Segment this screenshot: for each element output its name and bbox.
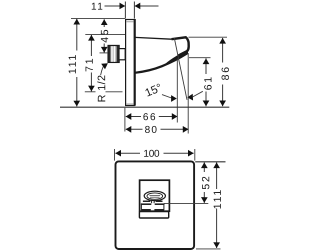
ext line 45 bottom: [100, 52, 109, 54]
svg-text:R 1/2: R 1/2: [96, 75, 108, 103]
spout head outline: [172, 37, 189, 56]
escutcheon square (front): [116, 161, 195, 249]
arrow 100 right: [188, 150, 194, 157]
dim line 61: [205, 58, 207, 106]
grate line 1: [150, 194, 161, 196]
arrow 86 top: [219, 38, 226, 44]
connector left thick bar: [108, 46, 110, 62]
side connector right: [163, 203, 165, 209]
dim line 71: [90, 35, 92, 92]
arrow 80 right: [183, 126, 189, 133]
svg-text:100: 100: [143, 149, 160, 160]
ext line 71 top: [85, 34, 125, 36]
ext line 71 bottom: [85, 91, 96, 93]
svg-text:11: 11: [91, 2, 104, 13]
grate line 2: [150, 196, 160, 198]
arrow 11 right (points left): [135, 3, 141, 10]
side connector left: [140, 203, 142, 209]
ext line 100 right: [194, 149, 196, 161]
stem left: [150, 201, 152, 204]
dim line 86: [222, 38, 224, 106]
dim line 52: [203, 162, 205, 203]
lower band left: [141, 209, 151, 211]
spout tip dark wedge: [166, 51, 188, 65]
leader R 1/2: [101, 67, 104, 76]
arrow 111b bottom: [213, 242, 220, 248]
leader to 52: [164, 202, 208, 204]
arrow 111 bottom: [73, 101, 80, 107]
svg-text:111: 111: [67, 53, 79, 74]
svg-text:111: 111: [212, 188, 224, 209]
svg-text:52: 52: [200, 174, 212, 189]
connector stub: [119, 49, 125, 60]
arrow R 1/2 (points up-right): [101, 63, 108, 69]
svg-text:86: 86: [220, 65, 232, 80]
lower band right: [154, 209, 164, 211]
plate inner line top: [126, 21, 133, 23]
svg-text:61: 61: [202, 75, 214, 90]
arrow 52 top: [201, 162, 208, 168]
arrow 15deg left (points right): [171, 95, 177, 102]
arrow 100 left: [115, 150, 121, 157]
15 deg slant line: [174, 38, 187, 100]
arrow 45 top: [101, 19, 108, 25]
escutcheon plate (side): [126, 20, 135, 106]
arrow 11 left (points right): [119, 3, 125, 10]
threaded connector body: [108, 46, 119, 63]
outlet outer ellipse: [144, 191, 165, 200]
dim line 45: [103, 19, 105, 27]
connector right dark bar: [117, 46, 119, 62]
dim line 66: [126, 116, 178, 118]
ext line 111b bottom: [196, 248, 221, 250]
ext line 66/80 left: [124, 108, 126, 132]
outlet inner ellipse: [147, 193, 163, 199]
ext line wall face: [124, 2, 126, 19]
spout window: [140, 180, 170, 211]
ext line 71 bottom right part: [106, 91, 123, 93]
arrow 80 left: [126, 126, 132, 133]
arrow 15deg right (points left): [187, 94, 193, 101]
bowl bottom left block: [143, 201, 150, 203]
plate front thick edge: [134, 19, 136, 106]
arrow 61 top: [203, 58, 210, 64]
ext line 52/111b top: [195, 161, 225, 163]
arrow 86 bottom: [219, 100, 226, 106]
svg-text:45: 45: [99, 28, 111, 43]
shelf left block: [141, 203, 151, 205]
shelf right block: [155, 203, 165, 205]
plate inner line bottom: [126, 103, 133, 105]
baseline: [60, 106, 229, 108]
dim line 100: [115, 152, 193, 154]
window bottom flange: [139, 212, 168, 218]
ext line 61 top: [189, 57, 211, 59]
vertical ref line (66 ext): [176, 59, 178, 123]
arrow 111b top: [213, 162, 220, 168]
arrow 66 right: [172, 113, 178, 120]
arrow 71 bottom: [88, 86, 95, 92]
dim line 111 left: [76, 19, 78, 107]
stem right: [153, 201, 155, 204]
arrow 71 top: [88, 35, 95, 41]
arrow 52 bottom: [201, 197, 208, 203]
ext line 111 top: [71, 17, 125, 19]
spout underside curve: [135, 53, 187, 73]
bowl bottom right block: [156, 201, 163, 203]
arrow 66 left: [126, 113, 132, 120]
svg-text:66: 66: [143, 112, 157, 123]
ext line 100 left: [114, 149, 116, 161]
dim line 111b: [216, 162, 218, 248]
tail 15deg right: [193, 91, 203, 97]
leader 15deg: [162, 95, 172, 98]
connector thread texture: [111, 46, 117, 62]
ext line plate front: [133, 2, 135, 19]
svg-text:80: 80: [145, 125, 159, 136]
dim line 11: [105, 5, 159, 7]
arrow 45 bottom: [101, 47, 108, 53]
ext line 80 right: [187, 53, 189, 134]
arrow 61 bottom: [203, 101, 210, 107]
dim line 80: [126, 128, 189, 130]
svg-text:71: 71: [84, 57, 96, 72]
ext line 86 top: [189, 36, 228, 38]
spout top edge: [135, 37, 172, 39]
arrow 111 top: [73, 19, 80, 25]
